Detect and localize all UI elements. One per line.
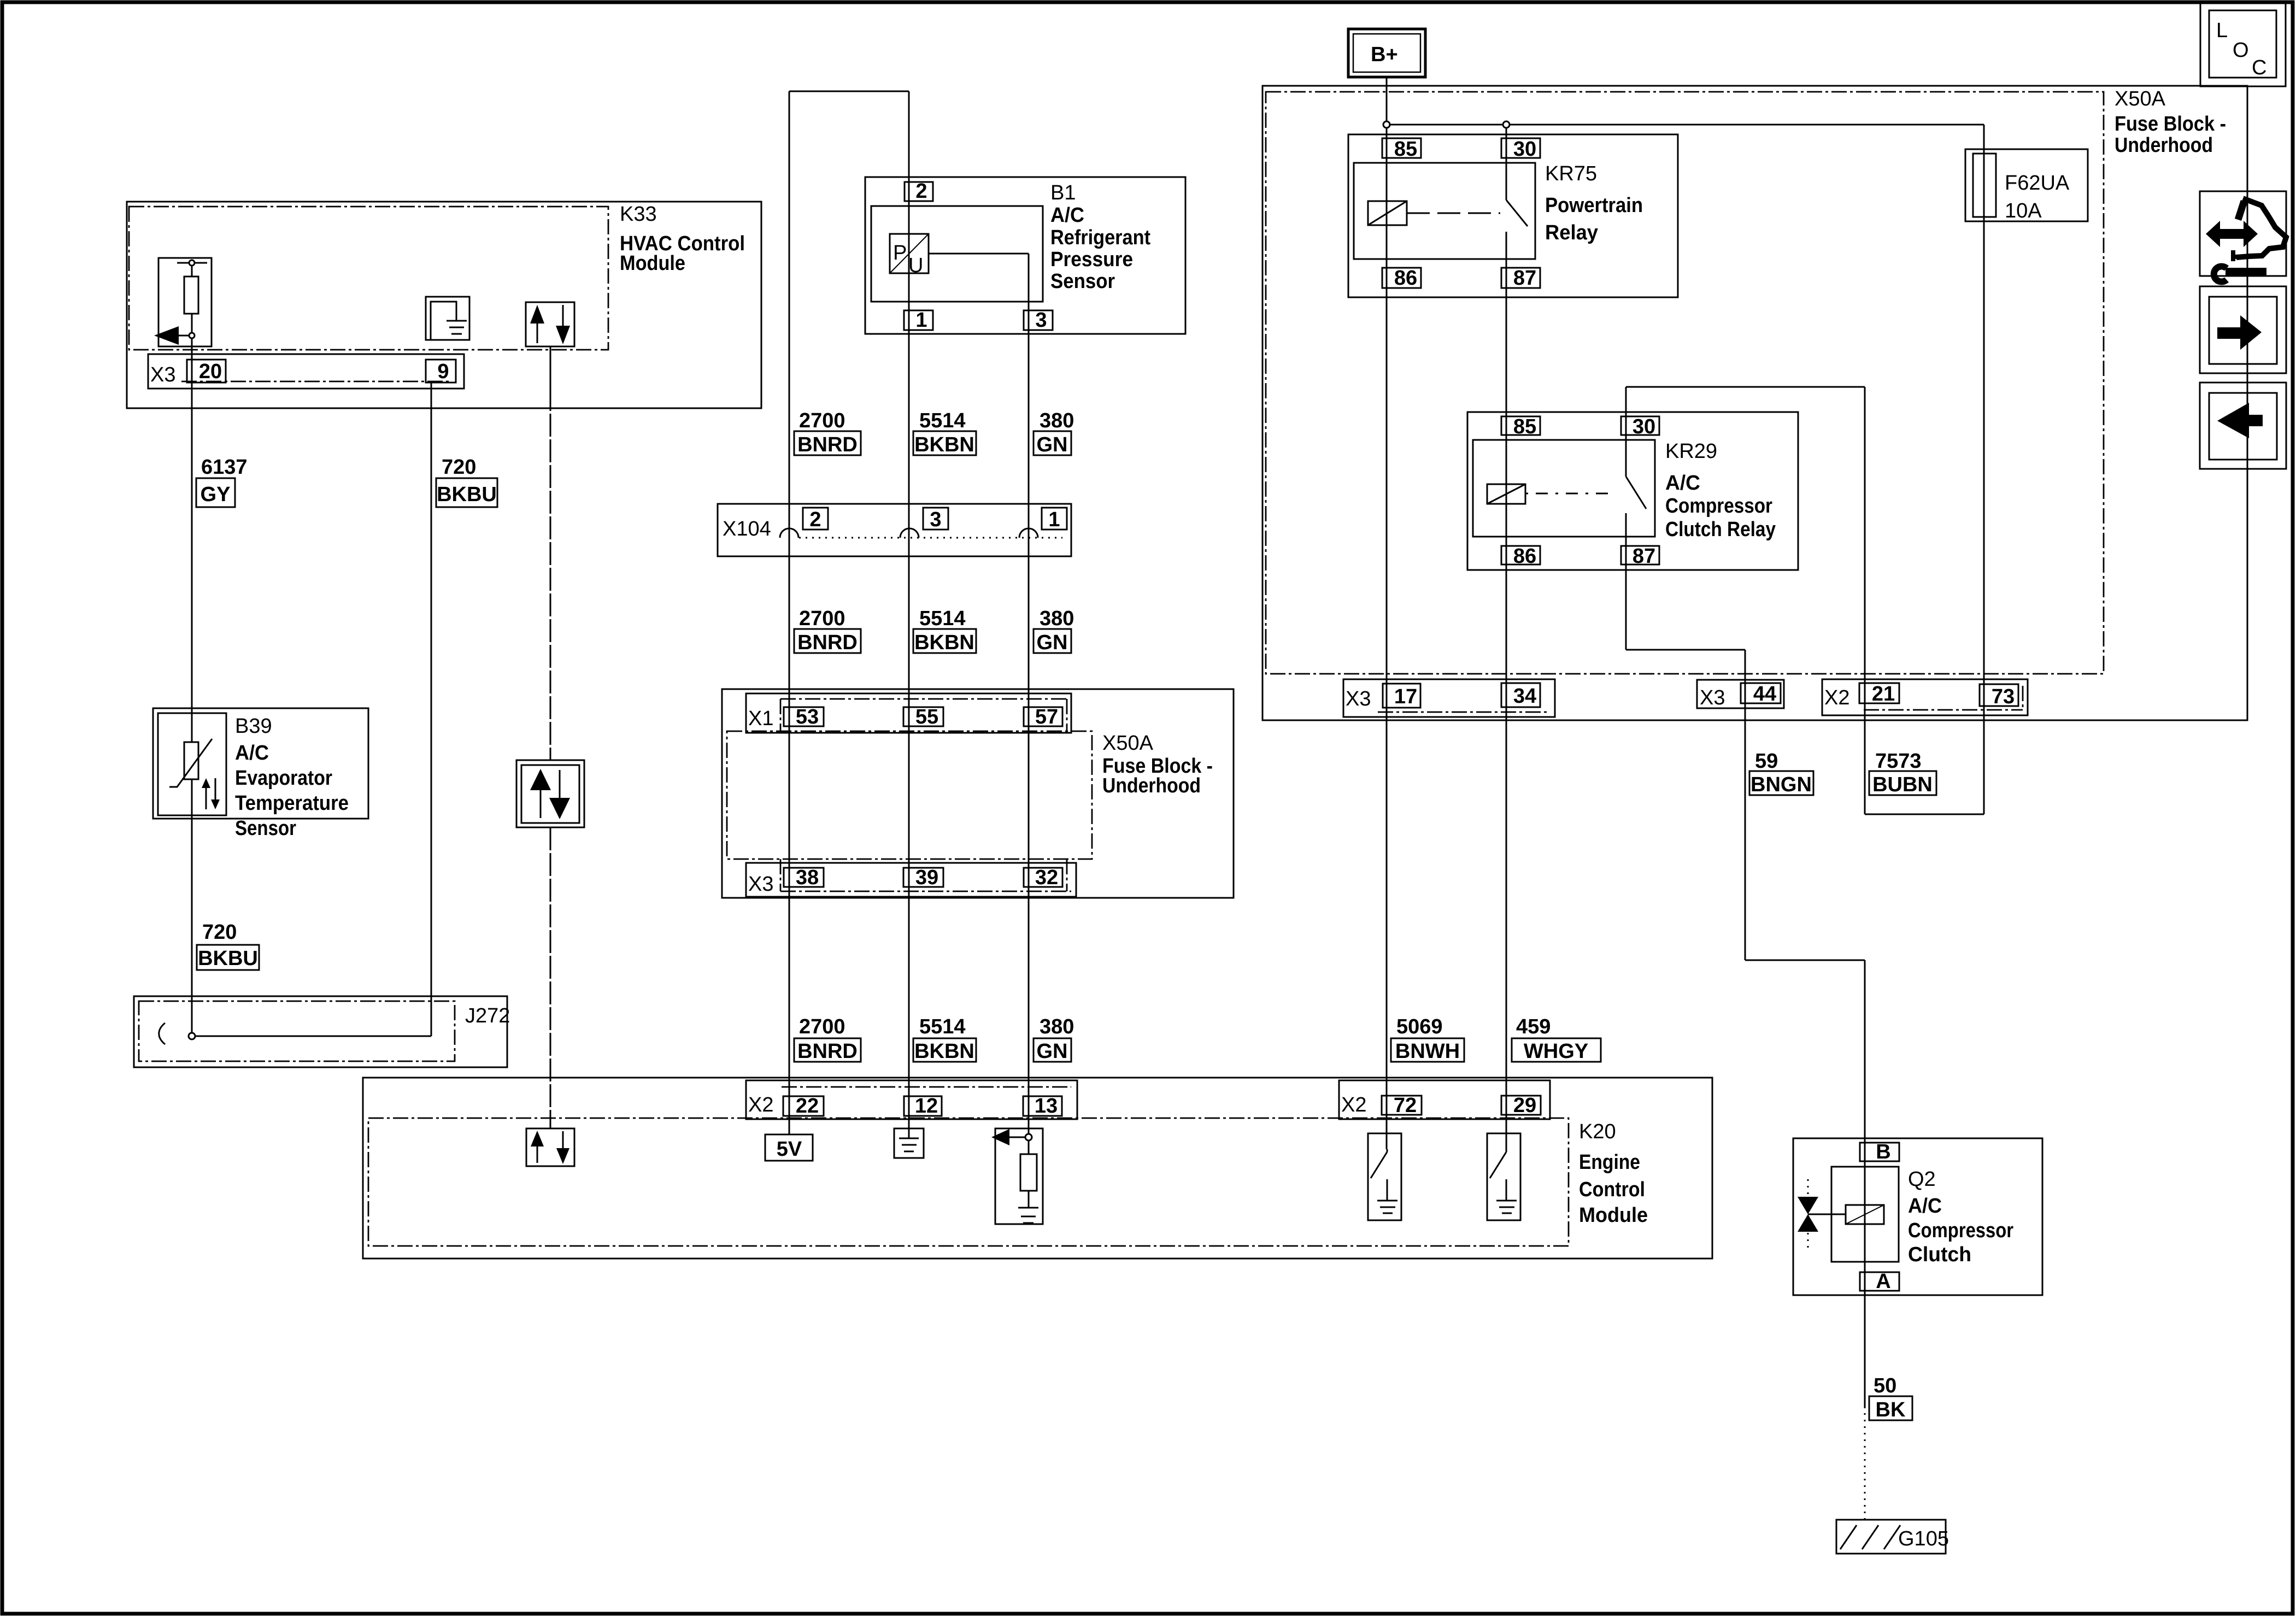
svg-text:6137: 6137: [201, 456, 248, 479]
node splice junction: [189, 1033, 195, 1039]
label wire 7573 BUBN: [1869, 750, 1936, 796]
svg-text:BKBU: BKBU: [437, 483, 497, 506]
svg-text:Engine: Engine: [1579, 1151, 1640, 1174]
svg-text:Control: Control: [1579, 1178, 1645, 1201]
svg-text:10A: 10A: [2005, 199, 2042, 222]
label F62UA 10A: [2005, 172, 2070, 222]
svg-text:Compressor: Compressor: [1665, 495, 1772, 518]
wire serial data arrows symbol to K20 (dashed): [550, 827, 551, 1128]
J272 dash-dot boundary: [139, 1001, 455, 1061]
svg-text:1: 1: [1048, 508, 1060, 531]
svg-text:30: 30: [1633, 415, 1655, 438]
svg-text:5514: 5514: [919, 1015, 966, 1038]
svg-text:B1: B1: [1050, 181, 1076, 204]
svg-text:1: 1: [915, 309, 927, 332]
K20 serial data arrows symbol: [526, 1128, 574, 1166]
svg-text:L: L: [2216, 19, 2228, 42]
J272 splice symbol: [159, 1023, 165, 1044]
svg-text:GN: GN: [1037, 433, 1068, 456]
wire KR29 pin87 down: [1625, 513, 1627, 650]
wire B1 internal to pin 3: [929, 253, 1029, 255]
module K20 outer box: [363, 1078, 1712, 1259]
label wire 5514 BKBN (set 3): [913, 1015, 976, 1063]
wire LOC vertical / fuse block right border: [2247, 86, 2248, 720]
label wire 380 GN (set 1): [1034, 409, 1074, 456]
svg-text:5514: 5514: [919, 409, 966, 432]
label KR75 Powertrain Relay: [1545, 162, 1643, 244]
module K20 dash-dot boundary: [368, 1118, 1569, 1246]
wire J272 splice horizontal: [192, 1036, 431, 1037]
svg-text:380: 380: [1040, 1015, 1074, 1038]
svg-text:38: 38: [796, 866, 819, 889]
svg-text:X2: X2: [748, 1093, 773, 1116]
svg-text:Relay: Relay: [1545, 221, 1598, 244]
label wire 2700 BNRD (set 2): [794, 607, 861, 654]
connector X2 (21 73) row: [1822, 679, 2028, 715]
icon car diagnostic box: [2200, 191, 2286, 282]
svg-text:86: 86: [1513, 545, 1536, 568]
svg-text:U: U: [908, 254, 923, 277]
pin 20 K33: [187, 360, 226, 383]
svg-text:2700: 2700: [799, 409, 845, 432]
pin 32: [1024, 868, 1062, 887]
svg-text:KR29: KR29: [1665, 440, 1717, 463]
label K33 HVAC Control Module: [620, 203, 745, 275]
wire KR29 pin 30 top horizontal: [1626, 386, 1865, 388]
icon arrow left box: [2200, 383, 2286, 469]
connector X3 row of K33: [148, 354, 464, 389]
power B+ symbol: [1348, 29, 1425, 77]
pin 22 K20: [783, 1096, 824, 1116]
wire 5514 BKBN vertical (B1 pin1 to K20 pin 12): [908, 91, 910, 1128]
K20 low-side driver at pin 29: [1487, 1133, 1520, 1220]
label wire 459 WHGY: [1512, 1015, 1601, 1063]
relay KR29 contact: [1626, 477, 1646, 509]
pin 30 KR29: [1621, 416, 1659, 435]
svg-text:59: 59: [1755, 750, 1778, 773]
relay KR75 coil-contact link: [1407, 213, 1500, 214]
wire serial data K33 to arrows symbol (dashed): [550, 346, 551, 388]
wire KR75 87 to KR29 85 to K20 pin 29: [1506, 232, 1507, 1149]
wire KR29 87 jog to X3 44: [1626, 649, 1745, 651]
svg-text:Module: Module: [620, 252, 685, 275]
pin 85 KR29: [1501, 416, 1540, 435]
label Q2 A/C Compressor Clutch: [1908, 1168, 2013, 1266]
svg-text:73: 73: [1992, 685, 2015, 708]
svg-text:5514: 5514: [919, 607, 966, 630]
pin 13 K20: [1023, 1096, 1062, 1116]
fuse F62UA symbol: [1973, 154, 1996, 217]
svg-text:X104: X104: [723, 518, 771, 540]
svg-text:Fuse Block -: Fuse Block -: [2115, 113, 2226, 136]
svg-text:GY: GY: [201, 483, 231, 506]
wire KR75 pin30 drop: [1506, 125, 1507, 200]
label wire 5514 BKBN (set 2): [913, 607, 976, 654]
svg-text:57: 57: [1035, 705, 1058, 728]
svg-text:87: 87: [1513, 267, 1536, 290]
fuse block X50A middle outer box: [722, 689, 1234, 898]
svg-text:20: 20: [199, 360, 222, 383]
label wire 380 GN (set 2): [1034, 607, 1074, 654]
pin 1 X104: [1042, 508, 1067, 530]
svg-text:39: 39: [915, 866, 938, 889]
svg-text:380: 380: [1040, 409, 1074, 432]
X104 dotted link: [799, 537, 1062, 539]
label wire 2700 BNRD (set 3): [794, 1015, 861, 1063]
svg-text:9: 9: [437, 360, 449, 383]
label wire 59 BNGN: [1749, 750, 1813, 796]
svg-text:12: 12: [915, 1095, 938, 1118]
pin 34: [1501, 683, 1540, 707]
B39 variation arrows: [202, 778, 220, 809]
svg-text:7573: 7573: [1875, 750, 1922, 773]
label B1 A/C Refrigerant Pressure Sensor: [1050, 181, 1150, 293]
svg-text:5V: 5V: [777, 1138, 802, 1161]
svg-text:5069: 5069: [1396, 1015, 1443, 1038]
svg-text:X2: X2: [1824, 686, 1849, 709]
wire B+ vertical to KR75 pin 85 and on to K20 pin 72: [1386, 77, 1388, 1149]
svg-text:44: 44: [1753, 683, 1776, 705]
svg-text:X3: X3: [1346, 687, 1371, 710]
pin 21: [1859, 683, 1899, 703]
svg-text:X3: X3: [748, 873, 773, 896]
label KR29 A/C Compressor Clutch Relay: [1665, 440, 1776, 541]
svg-text:P: P: [893, 242, 907, 264]
svg-text:Sensor: Sensor: [235, 817, 296, 840]
svg-text:Sensor: Sensor: [1050, 270, 1115, 293]
svg-text:3: 3: [1035, 309, 1047, 332]
svg-text:A/C: A/C: [1665, 472, 1700, 495]
svg-text:85: 85: [1513, 415, 1536, 438]
relay KR29 coil: [1487, 484, 1525, 504]
connector X1 row: [746, 693, 1071, 733]
pin 53: [784, 707, 824, 726]
wire 59 BNGN jog to Q2: [1745, 960, 1865, 961]
pin 87 KR29: [1621, 546, 1659, 565]
pin 3 X104: [923, 508, 948, 530]
K20 low-side driver at pin 72: [1368, 1133, 1401, 1220]
pin 72 K20: [1382, 1096, 1422, 1115]
svg-text:BNRD: BNRD: [797, 631, 858, 654]
svg-text:F62UA: F62UA: [2005, 172, 2070, 195]
svg-text:459: 459: [1516, 1015, 1551, 1038]
svg-text:K20: K20: [1579, 1120, 1616, 1143]
svg-text:BNRD: BNRD: [797, 433, 858, 456]
label X50A Fuse Block - Underhood (top right): [2115, 87, 2226, 157]
pin 73: [1980, 684, 2018, 706]
label wire 6137 GY: [196, 456, 248, 507]
connector X3 row (38 39 32): [746, 863, 1076, 897]
wire 380 GN vertical (B1 pin3 to K20 pin 13): [1028, 254, 1030, 1134]
svg-text:86: 86: [1394, 267, 1417, 290]
pin 2 X104: [803, 508, 828, 530]
relay KR75 box: [1348, 134, 1678, 297]
relay KR75 contact: [1506, 200, 1528, 226]
svg-text:X50A: X50A: [1102, 732, 1154, 755]
svg-text:X3: X3: [150, 363, 175, 386]
svg-text:BKBN: BKBN: [914, 631, 974, 654]
node junction B+ branch 1: [1383, 121, 1390, 128]
svg-text:55: 55: [915, 705, 938, 728]
svg-text:Underhood: Underhood: [1102, 774, 1201, 797]
svg-text:BNWH: BNWH: [1395, 1040, 1460, 1063]
svg-text:720: 720: [442, 456, 476, 479]
svg-text:53: 53: [796, 705, 819, 728]
svg-text:Clutch: Clutch: [1908, 1243, 1971, 1266]
K33 internal ground symbol: [426, 297, 469, 340]
sensor B39 outer box: [153, 708, 368, 819]
svg-text:50: 50: [1874, 1374, 1896, 1397]
label K20 Engine Control Module: [1579, 1120, 1648, 1227]
svg-text:85: 85: [1394, 138, 1417, 161]
label wire 380 GN (set 3): [1034, 1015, 1074, 1063]
wire fuse F62UA feed down through X2 pin 73: [1983, 125, 1985, 814]
connector X3 (17 34) row: [1343, 679, 1555, 717]
K20 internal ground at pin 12: [894, 1116, 924, 1158]
svg-text:Clutch Relay: Clutch Relay: [1665, 518, 1776, 541]
svg-text:Underhood: Underhood: [2115, 134, 2213, 157]
B39 thermistor: [169, 739, 212, 787]
clutch Q2 outer box: [1793, 1138, 2042, 1295]
label wire 5069 BNWH: [1391, 1015, 1464, 1063]
K33 serial data arrows symbol: [526, 302, 574, 346]
svg-text:C: C: [2252, 56, 2266, 79]
K33 temperature sensor input symbol: [154, 258, 212, 346]
svg-text:2: 2: [809, 508, 821, 531]
node junction B+ branch 2: [1503, 121, 1510, 128]
svg-text:B+: B+: [1371, 43, 1398, 66]
svg-text:22: 22: [796, 1095, 819, 1118]
svg-text:720: 720: [202, 921, 237, 944]
sensor B1 P/U transducer symbol: [890, 234, 929, 277]
svg-text:2700: 2700: [799, 1015, 845, 1038]
pin 38: [784, 868, 824, 887]
svg-text:X1: X1: [748, 707, 773, 730]
icon arrow right box: [2200, 286, 2286, 373]
relay KR29 box: [1467, 412, 1798, 570]
pin 85 KR75: [1382, 138, 1421, 158]
wire 50 BK dotted to G105: [1864, 1407, 1866, 1520]
wire 2700 BNRD vertical (B1 pin2 loop to K20 pin 22): [789, 91, 790, 1134]
module K33 outer box: [127, 202, 761, 408]
svg-text:X2: X2: [1341, 1093, 1366, 1116]
connector X3 (44): [1697, 680, 1784, 708]
pin 86 KR29: [1501, 546, 1540, 565]
relay KR75 coil: [1368, 201, 1407, 225]
pin 17: [1383, 684, 1420, 708]
svg-text:A/C: A/C: [235, 742, 269, 765]
pin 30 KR75: [1501, 138, 1540, 158]
label wire 2700 BNRD (set 1): [794, 409, 861, 456]
pin 57: [1024, 707, 1062, 726]
svg-text:72: 72: [1394, 1094, 1417, 1117]
sensor B1 inner body: [871, 206, 1043, 302]
wire loop top over B1: [789, 91, 909, 92]
svg-text:K33: K33: [620, 203, 657, 226]
pin 55: [903, 707, 943, 726]
wire 6137 GY (K33 pin20 to B39): [191, 338, 193, 742]
wire KR29 pin30 feed from X2 pin 21: [1625, 387, 1627, 477]
svg-text:Temperature: Temperature: [235, 792, 349, 815]
svg-text:2700: 2700: [799, 607, 845, 630]
svg-text:BKBN: BKBN: [914, 433, 974, 456]
svg-text:O: O: [2233, 39, 2249, 62]
connector X2 row of K20 (72 29): [1339, 1080, 1550, 1119]
pin 44: [1741, 683, 1781, 703]
wire B39 to J272 splice: [191, 779, 193, 1033]
relay KR75 inner body: [1354, 163, 1535, 259]
fuse block X50A middle dash-dot boundary: [727, 731, 1092, 859]
svg-text:2: 2: [915, 180, 927, 203]
svg-text:X50A: X50A: [2115, 87, 2166, 110]
svg-text:GN: GN: [1037, 1040, 1068, 1063]
relay KR29 inner body: [1473, 440, 1655, 537]
pin 12 K20: [904, 1096, 942, 1116]
pin B Q2: [1860, 1143, 1899, 1161]
svg-text:Evaporator: Evaporator: [235, 767, 332, 790]
fuse F62UA label box: [1965, 149, 2088, 221]
svg-text:Pressure: Pressure: [1050, 248, 1133, 271]
svg-text:17: 17: [1394, 685, 1417, 708]
wire Q2 feed down through pin B and pin A: [1864, 960, 1866, 1407]
module K33 dash-dot boundary: [129, 207, 608, 350]
fuse block X50A outer box: [1262, 86, 2247, 720]
svg-text:WHGY: WHGY: [1524, 1040, 1588, 1063]
pin 2 B1: [905, 182, 933, 201]
pin 86 KR75: [1382, 268, 1421, 288]
svg-text:GN: GN: [1037, 631, 1068, 654]
svg-text:B: B: [1876, 1140, 1890, 1163]
svg-text:B39: B39: [235, 715, 272, 738]
svg-text:29: 29: [1513, 1094, 1536, 1117]
svg-text:BKBU: BKBU: [198, 947, 258, 970]
pin 29 K20: [1501, 1096, 1541, 1115]
svg-text:Powertrain: Powertrain: [1545, 194, 1643, 217]
svg-text:Q2: Q2: [1908, 1168, 1936, 1191]
pin A Q2: [1860, 1272, 1899, 1291]
svg-text:BKBN: BKBN: [914, 1040, 974, 1063]
label wire 720 BKBU (lower): [197, 921, 259, 970]
connector X104 row: [718, 504, 1071, 556]
svg-text:G105: G105: [1898, 1527, 1949, 1550]
svg-text:Compressor: Compressor: [1908, 1219, 2013, 1242]
sensor B39 inner body: [158, 713, 226, 815]
ground G105: [1836, 1520, 1949, 1554]
connector X2 row of K20 (22 12 13): [746, 1080, 1077, 1119]
svg-text:30: 30: [1513, 138, 1536, 161]
Q2 inner body: [1831, 1167, 1899, 1262]
svg-text:KR75: KR75: [1545, 162, 1597, 185]
svg-text:BNGN: BNGN: [1751, 773, 1812, 796]
svg-text:J272: J272: [465, 1004, 510, 1027]
K20 5V reference box: [765, 1134, 813, 1161]
K20 signal input resistor at pin 13: [991, 1128, 1043, 1224]
Q2 coil: [1846, 1205, 1884, 1224]
label X50A Fuse Block - Underhood (middle): [1102, 732, 1213, 797]
wire 720 BKBU (K33 pin9 to J272): [431, 383, 432, 1036]
data line arrows symbol (standalone): [516, 760, 584, 827]
fuse block X50A dash-dot boundary: [1266, 92, 2104, 674]
sensor B1 outer box: [865, 177, 1185, 334]
splice J272 box: [134, 996, 507, 1067]
svg-text:BNRD: BNRD: [797, 1040, 858, 1063]
svg-text:Refrigerant: Refrigerant: [1050, 226, 1150, 249]
label wire 720 BKBU (upper): [436, 456, 497, 507]
svg-text:380: 380: [1040, 607, 1074, 630]
svg-text:21: 21: [1872, 683, 1895, 705]
svg-text:BUBN: BUBN: [1872, 773, 1933, 796]
svg-text:BK: BK: [1876, 1398, 1906, 1421]
label wire 50 BK: [1869, 1374, 1912, 1421]
svg-text:A/C: A/C: [1908, 1195, 1942, 1218]
svg-text:13: 13: [1035, 1095, 1058, 1118]
LOC page-reference box: [2200, 1, 2286, 86]
wire B+ horizontal distribution: [1387, 124, 1984, 126]
pin 9 K33: [426, 360, 456, 383]
pin 1 B1: [904, 310, 933, 330]
svg-text:32: 32: [1035, 866, 1058, 889]
svg-text:3: 3: [930, 508, 941, 531]
label B39 A/C Evaporator Temperature Sensor: [235, 715, 349, 840]
svg-text:87: 87: [1633, 545, 1655, 568]
Q2 clutch valve symbol: [1798, 1179, 1846, 1249]
relay KR29 coil-contact link dotted: [1525, 493, 1615, 495]
label wire 5514 BKBN (set 1): [913, 409, 976, 456]
svg-text:X3: X3: [1700, 686, 1725, 709]
svg-text:A/C: A/C: [1050, 204, 1084, 227]
pin 39: [903, 868, 943, 887]
X104 terminal bumps: [780, 528, 798, 538]
svg-text:A: A: [1876, 1270, 1890, 1293]
wire X2 pin21 vertical: [1864, 387, 1866, 814]
wire 59 BNGN through X3 pin 44: [1745, 650, 1746, 960]
pin 87 KR75: [1501, 268, 1540, 288]
wire 7573 loop bottom: [1865, 814, 1984, 815]
svg-text:Module: Module: [1579, 1204, 1648, 1227]
pin 3 B1: [1024, 310, 1053, 330]
svg-text:34: 34: [1513, 685, 1536, 708]
